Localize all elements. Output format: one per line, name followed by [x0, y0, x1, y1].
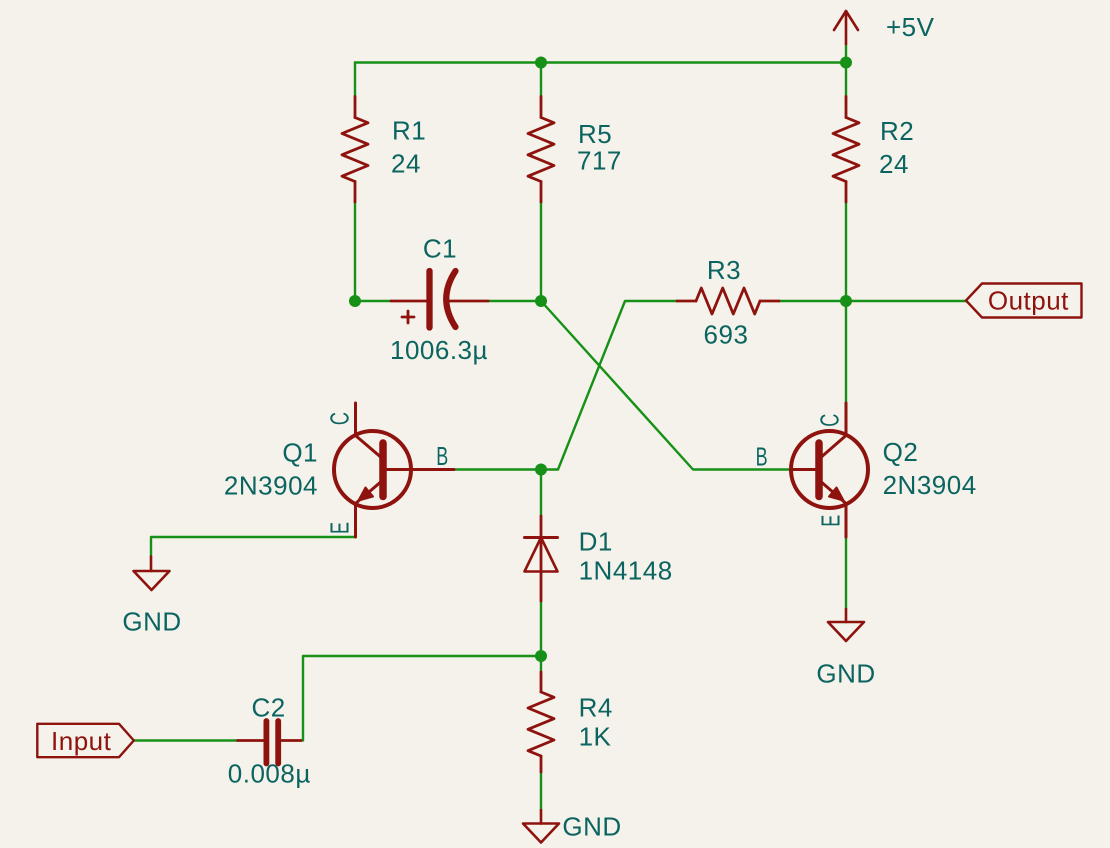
wire Q1 base	[454, 468, 541, 470]
svg-text:GND: GND	[562, 812, 621, 842]
svg-text:24: 24	[879, 149, 909, 179]
ground symbol R4	[523, 810, 559, 843]
svg-text:Q1: Q1	[282, 438, 318, 468]
svg-text:693: 693	[704, 320, 749, 350]
wire output node to Output label	[846, 300, 966, 302]
resistor R2	[833, 97, 859, 203]
svg-text:C1: C1	[423, 234, 457, 264]
resistor R1	[342, 97, 368, 203]
svg-text:Q2: Q2	[883, 437, 919, 467]
wire cross diagonal Q1 base node to R3	[541, 301, 677, 470]
wire node C to C2	[301, 656, 541, 741]
svg-text:C2: C2	[251, 692, 285, 722]
wire Input label to C2	[134, 739, 238, 741]
wire Q2 collector	[845, 301, 847, 403]
svg-text:C: C	[325, 412, 355, 425]
svg-text:Input: Input	[51, 726, 112, 756]
wire D1 anode top	[540, 470, 542, 517]
transistor Q2	[791, 403, 868, 537]
capacitor C2	[238, 721, 301, 764]
wire top rail	[355, 61, 846, 63]
svg-text:+5V: +5V	[886, 12, 935, 42]
svg-text:717: 717	[577, 146, 622, 176]
wire R2 bottom to output node	[845, 202, 847, 301]
svg-text:E: E	[816, 515, 846, 527]
svg-text:R2: R2	[880, 116, 914, 146]
wire R3 right to output node	[779, 300, 846, 302]
junction top rail R5	[535, 57, 547, 69]
wire R4 bottom to GND	[540, 772, 542, 810]
wire C1 right	[488, 300, 541, 302]
wire cross diagonal node B to Q2 base	[541, 301, 791, 470]
svg-text:R1: R1	[392, 116, 426, 146]
junction node C (D1/R4)	[535, 650, 547, 662]
wire R1 top stub	[354, 63, 356, 97]
ground symbol Q1 emitter	[134, 557, 170, 591]
junction node A (C1 left)	[349, 295, 361, 307]
svg-text:GND: GND	[122, 607, 181, 637]
diode D1	[525, 516, 558, 601]
wire Q1 emitter to GND	[151, 537, 356, 557]
svg-text:R5: R5	[578, 119, 612, 149]
svg-text:2N3904: 2N3904	[883, 470, 977, 500]
svg-text:0.008µ: 0.008µ	[228, 759, 311, 789]
svg-text:1K: 1K	[579, 722, 612, 752]
svg-text:R4: R4	[579, 693, 613, 723]
capacitor C1	[391, 271, 488, 328]
junction top rail power	[840, 57, 852, 69]
svg-text:1006.3µ: 1006.3µ	[390, 335, 488, 365]
wire C1 left	[355, 300, 391, 302]
wire R5 bottom to node B	[540, 202, 542, 301]
svg-text:B: B	[436, 441, 448, 471]
junction Q1 base node	[535, 464, 547, 476]
svg-text:D1: D1	[579, 526, 613, 556]
hierarchical label Output	[966, 284, 1082, 318]
wire R5 top stub	[540, 63, 542, 97]
ground symbol Q2 emitter	[828, 609, 864, 641]
resistor R3	[677, 288, 779, 314]
resistor R5	[528, 97, 554, 203]
svg-text:1N4148: 1N4148	[579, 555, 673, 585]
hierarchical label Input	[37, 724, 134, 757]
svg-text:24: 24	[391, 148, 421, 178]
power +5V symbol	[834, 11, 858, 44]
wire R2 top stub	[845, 63, 847, 97]
wire +5V stub	[845, 44, 847, 63]
svg-text:C: C	[815, 414, 845, 427]
wire Q2 emitter to GND	[845, 537, 847, 610]
wire R1 bottom to node A	[354, 202, 356, 301]
svg-text:2N3904: 2N3904	[224, 471, 318, 501]
wire D1 cathode to node C	[540, 601, 542, 672]
svg-text:B: B	[756, 442, 768, 472]
junction output node	[840, 295, 852, 307]
svg-text:GND: GND	[816, 658, 875, 688]
junction node B (C1 right)	[535, 295, 547, 307]
transistor Q1	[334, 403, 454, 537]
svg-text:R3: R3	[707, 255, 741, 285]
resistor R4	[528, 672, 554, 772]
svg-text:E: E	[325, 522, 355, 534]
svg-text:Output: Output	[988, 286, 1069, 316]
